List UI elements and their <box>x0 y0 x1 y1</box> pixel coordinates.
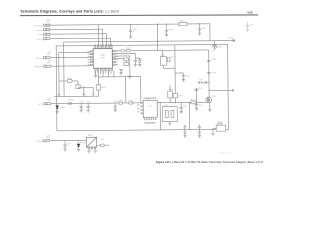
svg-text:750: 750 <box>46 137 49 139</box>
wire resistor drop to base line <box>174 98 176 103</box>
capacitor C12 right of module A2 <box>179 102 183 113</box>
IC U2 pin numbers top <box>144 97 156 99</box>
wire bridge vertical left <box>162 50 164 56</box>
wire vertical 160 bottom <box>159 103 161 130</box>
IC U101 pin numbers right <box>116 51 118 65</box>
connector J pin row7 <box>44 103 46 105</box>
IC U101 pins left <box>90 51 93 66</box>
wire input row 3 <box>51 33 107 35</box>
header rule <box>20 14 258 17</box>
filter FL101 top tab <box>218 123 222 125</box>
wire R115 bottom stub <box>169 98 171 103</box>
IC U101 pin numbers top <box>95 44 112 45</box>
capacitor C9 bottom row <box>79 103 83 112</box>
ground U101 wire C <box>128 76 131 78</box>
svg-text:L111: L111 <box>129 100 133 102</box>
svg-text:Figure 4-8. Lo Band 29.7-42 MH: Figure 4-8. Lo Band 29.7-42 MHz 60 Watts… <box>156 160 263 164</box>
IC U101 pins bottom <box>95 68 112 71</box>
svg-text:U201: U201 <box>146 98 150 100</box>
svg-text:Schematic Diagrams, Overlays a: Schematic Diagrams, Overlays and Parts L… <box>21 10 120 14</box>
wire vertical 209 (collector chain) <box>208 50 210 97</box>
U101 bottom pin drops <box>95 71 114 96</box>
svg-text:R113: R113 <box>191 99 195 101</box>
svg-text:750: 750 <box>47 35 50 37</box>
ferrite bead E4 <box>46 38 50 40</box>
wire R2-R3 link <box>125 61 127 63</box>
svg-text:TP101: TP101 <box>228 38 233 40</box>
resistor R10 near transistor <box>191 101 196 104</box>
transformer T101 box <box>160 57 167 66</box>
svg-text:TX EN: TX EN <box>37 34 43 36</box>
wire vertical 140.7 <box>140 77 142 103</box>
connector J pin row1 <box>43 24 45 26</box>
svg-text:R110: R110 <box>126 48 130 50</box>
svg-text:750: 750 <box>47 54 50 56</box>
svg-text:CR103: CR103 <box>80 142 86 144</box>
node drop to U101 pin29 <box>106 34 108 46</box>
wire vertical from box-top corner <box>63 42 65 96</box>
wire input row 4 <box>51 37 111 40</box>
capacitor C5 top right <box>246 22 250 32</box>
capacitor C30 inside module <box>165 110 168 117</box>
svg-text:PCIC: PCIC <box>101 57 106 59</box>
capacitor C11 bottom row <box>113 103 117 112</box>
svg-text:C105: C105 <box>249 24 253 26</box>
svg-text:VR101: VR101 <box>60 107 66 109</box>
diode CR104 symbol <box>213 44 217 48</box>
svg-text:C111: C111 <box>87 101 91 103</box>
resistor R2 stacked <box>124 58 129 61</box>
capacitor C13 bottom module row <box>63 141 67 152</box>
svg-text:C103: C103 <box>169 29 173 31</box>
capacitor C1 on row1 <box>129 24 133 38</box>
capacitor C132 above wire <box>198 125 201 130</box>
wire R115 top stub <box>169 85 171 91</box>
ground module M1 <box>87 151 97 153</box>
wire U101 left feed <box>59 51 90 53</box>
svg-text:C110: C110 <box>80 101 84 103</box>
svg-text:R117: R117 <box>169 89 173 91</box>
diode CR2 series <box>69 102 72 105</box>
node terminal pad end of wire 41.3 <box>232 39 235 41</box>
ferrite bead E10 series <box>129 102 133 104</box>
capacitor C31 inside module <box>171 110 174 117</box>
ground FL101 <box>211 133 214 135</box>
node drop to U101 pin28 <box>110 38 112 46</box>
shield box enclosure <box>56 44 228 130</box>
IC U101 pins top <box>95 46 112 49</box>
svg-text:L110: L110 <box>119 100 123 102</box>
svg-text:4-23: 4-23 <box>247 10 253 14</box>
transistor Q1 <box>206 97 212 109</box>
capacitor C7 mid right <box>182 73 186 82</box>
svg-text:R101: R101 <box>180 20 184 22</box>
diode CR104 below wire <box>214 41 216 45</box>
resistor R3 stacked <box>124 62 129 65</box>
resistor R120 series on vertical 98.4 <box>96 85 100 90</box>
capacitor C10 bottom row <box>86 103 90 112</box>
wire vertical drop at far right of row1 <box>209 24 211 41</box>
node termination stub 2 <box>232 90 234 92</box>
svg-text:CR102: CR102 <box>68 100 74 102</box>
wire mid input row 6 <box>51 65 90 67</box>
svg-text:CR104: CR104 <box>216 46 222 48</box>
wire vertical 189.3 <box>188 102 190 129</box>
capacitor C3 on row1 <box>165 24 169 36</box>
capacitor C121b right of pins <box>119 69 122 75</box>
svg-text:C109: C109 <box>211 72 215 74</box>
IC U101 body <box>93 49 112 69</box>
wire bridge vertical right <box>174 45 176 93</box>
capacitor C114 series <box>205 81 206 84</box>
svg-text:R121: R121 <box>171 56 175 58</box>
transistor Q102 body <box>76 85 80 89</box>
wire top rail y=41.5 <box>64 41 233 42</box>
capacitor C133 below wire with ground <box>198 130 201 138</box>
capacitor C113 series <box>200 81 201 84</box>
resistor R105 left subcircuit <box>68 80 72 83</box>
ferrite bead E6 <box>47 65 51 67</box>
node drop to U101 pin30 <box>102 29 104 46</box>
svg-text:R118: R118 <box>179 95 183 97</box>
connector J pin row6 <box>44 65 46 67</box>
wire U101 right pin wire B <box>115 53 135 60</box>
wire bridge bottom <box>163 67 175 69</box>
wire bottom bus 1 <box>98 76 140 78</box>
svg-text:C117: C117 <box>198 88 202 90</box>
svg-text:T101: T101 <box>160 55 164 57</box>
capacitor C130 above wire <box>183 125 186 130</box>
capacitor C17 on vertical 196 <box>194 89 198 90</box>
tiny labels (smudges) <box>34 18 255 146</box>
connector J pin row8 <box>43 139 45 141</box>
wire bottom row y=103 <box>51 102 141 105</box>
svg-text:C118: C118 <box>198 105 202 107</box>
wire input row 2 <box>51 28 103 30</box>
transformer T101 inner lines <box>161 58 163 63</box>
IC U2 left pin labels <box>137 104 140 112</box>
resistor R network labels on U101 right wire <box>121 50 125 52</box>
svg-text:L112: L112 <box>100 139 104 141</box>
node drop to U101 pin31 <box>97 25 99 46</box>
capacitor C8 on collector line <box>207 60 211 61</box>
node junction dots row1 <box>97 23 209 104</box>
wire vertical 196.3 upper <box>195 88 197 102</box>
IC U2 body <box>143 100 157 117</box>
svg-text:750: 750 <box>47 62 50 64</box>
svg-text:Q102: Q102 <box>81 87 85 89</box>
svg-text:A201: A201 <box>164 104 168 107</box>
svg-text:M101: M101 <box>88 135 93 137</box>
wire bottom module row <box>50 139 87 141</box>
ground A2 module <box>168 122 171 126</box>
capacitor C6 (U101 right) <box>133 60 137 66</box>
svg-text:C120: C120 <box>67 143 71 145</box>
svg-text:MAEPF-27798-O: MAEPF-27798-O <box>219 152 235 155</box>
module box A2 (lower mid) <box>162 107 177 122</box>
wire vertical left bus <box>58 53 60 94</box>
svg-text:C106: C106 <box>138 59 142 61</box>
filter FL101 box <box>216 125 226 131</box>
svg-text:.01: .01 <box>133 31 136 33</box>
resistor R121 side box <box>167 58 170 62</box>
wire IC2 to transistor <box>157 101 206 103</box>
resistor R1 series on row1 <box>179 22 187 25</box>
connector J pin row3 <box>43 33 45 35</box>
capacitor C116 parallel <box>135 58 141 66</box>
IC U2 left pins <box>141 102 143 114</box>
wire FL101 stub <box>213 129 216 133</box>
diode CR3 black bottom module row <box>77 140 80 149</box>
svg-text:U2: U2 <box>149 106 151 108</box>
svg-text:C107: C107 <box>186 76 190 78</box>
module M1 box with diagonal <box>86 137 96 147</box>
svg-text:R106: R106 <box>101 87 105 89</box>
wire U101 right pin wire D <box>115 58 123 60</box>
left subcircuit wires <box>59 81 93 94</box>
capacitor C131 below wire with ground <box>183 130 186 138</box>
svg-text:C104: C104 <box>202 28 206 30</box>
svg-text:C113: C113 <box>199 79 203 81</box>
connector J pin row5 <box>44 57 46 59</box>
connector J pin row4 <box>43 38 45 40</box>
ferrite bead E8 <box>46 140 50 142</box>
capacitor C18 below base line <box>195 102 199 110</box>
svg-text:TX INJ: TX INJ <box>36 141 42 143</box>
wire module output <box>97 144 110 146</box>
diode CR1 black (bottom row) <box>56 104 59 112</box>
wire cap stub <box>175 72 183 74</box>
IC U101 pins right <box>112 51 115 66</box>
capacitor C8b on collector line <box>207 72 211 73</box>
ground CR1 <box>56 111 59 113</box>
ferrite bead E3 <box>46 33 50 35</box>
capacitor C4 on row1 <box>198 24 202 35</box>
IC U101 pin numbers left <box>88 51 90 65</box>
resistor R115 vertical box <box>168 91 173 98</box>
svg-text:Q101: Q101 <box>212 96 216 98</box>
wire base feed y=83.2 <box>197 81 208 83</box>
svg-text:PA EN: PA EN <box>37 38 43 41</box>
svg-text:SW B+: SW B+ <box>37 30 43 32</box>
svg-text:R105: R105 <box>68 78 72 80</box>
wire bottom bus 2 <box>54 95 99 97</box>
wire bridge vertical left lower <box>162 65 164 68</box>
ferrite bead E2 <box>46 29 50 31</box>
module M1 pins <box>88 147 96 149</box>
wire U101 right pin wire A <box>115 49 208 52</box>
wire vertical 157 <box>156 24 158 50</box>
svg-text:9V TX: 9V TX <box>38 104 44 106</box>
connector J pin row2 <box>43 29 45 31</box>
wire input row 1 <box>50 24 178 25</box>
wire mid input row 5 <box>51 56 90 58</box>
transistor Q1 emitter ground <box>208 109 211 111</box>
ferrite bead E1 <box>46 24 50 26</box>
svg-text:C108: C108 <box>211 59 215 61</box>
ground under U101 <box>94 75 97 77</box>
IC U101 pin name row below <box>95 72 112 74</box>
ferrite bead E11 after module <box>101 144 105 146</box>
svg-text:SPI CLK: SPI CLK <box>36 58 44 60</box>
svg-text:FL101: FL101 <box>217 121 222 123</box>
svg-text:SPI DATA: SPI DATA <box>35 65 44 68</box>
resistor R114 series on vertical <box>173 93 178 98</box>
svg-text:C112: C112 <box>114 101 118 103</box>
wire rf line y=91.3 <box>209 89 232 91</box>
ferrite bead E5 <box>47 57 51 59</box>
svg-text:750: 750 <box>47 100 50 102</box>
ground left subcircuit 2 <box>92 94 95 96</box>
svg-text:C115: C115 <box>183 105 187 107</box>
wire U101 right pin wire C <box>115 56 130 76</box>
IC U2 pin name row below <box>144 118 156 123</box>
svg-text:9F1 A(TX): 9F1 A(TX) <box>34 24 43 27</box>
ferrite bead E9 series <box>119 102 123 104</box>
ground vertical 59 <box>57 94 60 96</box>
ferrite bead E7 <box>47 103 51 105</box>
wire vertical 125.7 <box>125 77 127 103</box>
ground left subcircuit 1 <box>82 94 85 96</box>
